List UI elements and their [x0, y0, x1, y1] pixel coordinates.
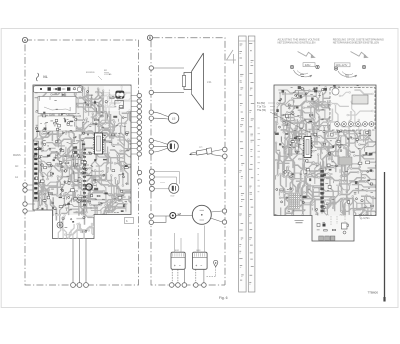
svg-text:R1 R201: R1 R201	[86, 72, 95, 74]
svg-text:Fig. 6: Fig. 6	[219, 296, 228, 300]
svg-text:7TB600: 7TB600	[368, 291, 379, 295]
svg-text:110v-127v: 110v-127v	[335, 63, 348, 67]
svg-text:NL: NL	[43, 74, 48, 79]
svg-text:LS1: LS1	[207, 80, 212, 84]
svg-text:L=2,5m: L=2,5m	[362, 217, 370, 220]
svg-text:T5a (5b): T5a (5b)	[257, 109, 266, 112]
svg-text:AC: AC	[15, 165, 19, 168]
svg-text:C2 PA5: C2 PA5	[104, 73, 112, 76]
svg-text:jack: jack	[198, 147, 203, 149]
svg-text:LS: LS	[172, 117, 176, 121]
svg-text:220v: 220v	[305, 63, 311, 67]
svg-text:NETZSPANNUNG EINSTELLEN: NETZSPANNUNG EINSTELLEN	[278, 41, 316, 45]
svg-text:NETSPANNINGSKIEZER EINSTELLEN: NETSPANNINGSKIEZER EINSTELLEN	[333, 41, 379, 45]
svg-text:MAINS: MAINS	[13, 154, 21, 157]
